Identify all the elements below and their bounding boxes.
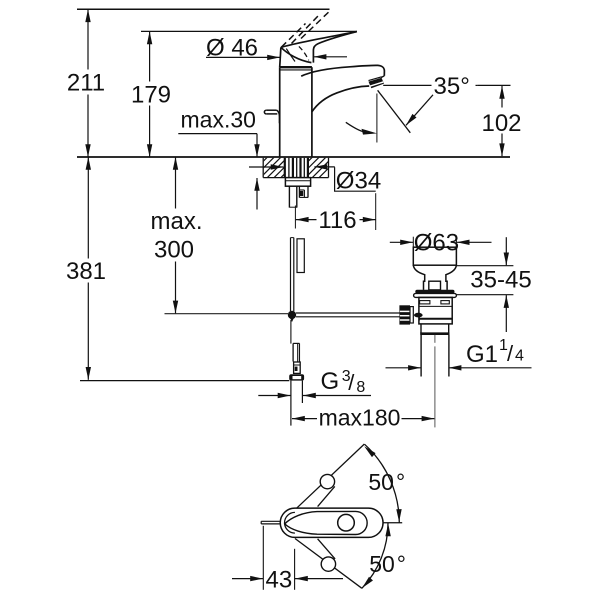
svg-text:50°: 50° [368, 469, 405, 495]
svg-text:50°: 50° [369, 551, 406, 577]
svg-text:116: 116 [318, 207, 356, 234]
svg-text:102: 102 [481, 110, 521, 137]
svg-text:381: 381 [66, 258, 106, 285]
svg-text:max180: max180 [319, 404, 401, 430]
svg-text:35-45: 35-45 [470, 267, 531, 294]
svg-text:35°: 35° [434, 73, 470, 100]
svg-text:211: 211 [67, 70, 105, 97]
svg-text:G: G [321, 368, 340, 395]
svg-text:300: 300 [154, 237, 194, 264]
svg-text:max.: max. [150, 208, 202, 235]
svg-text:/: / [507, 341, 514, 366]
svg-text:Ø34: Ø34 [336, 168, 381, 195]
svg-text:G1: G1 [466, 341, 498, 368]
svg-text:max.30: max.30 [181, 107, 256, 133]
svg-text:Ø63: Ø63 [414, 229, 459, 256]
svg-text:43: 43 [266, 566, 293, 593]
svg-text:179: 179 [131, 82, 171, 109]
svg-text:/: / [348, 370, 355, 395]
svg-text:8: 8 [356, 379, 365, 396]
svg-text:4: 4 [515, 348, 524, 365]
